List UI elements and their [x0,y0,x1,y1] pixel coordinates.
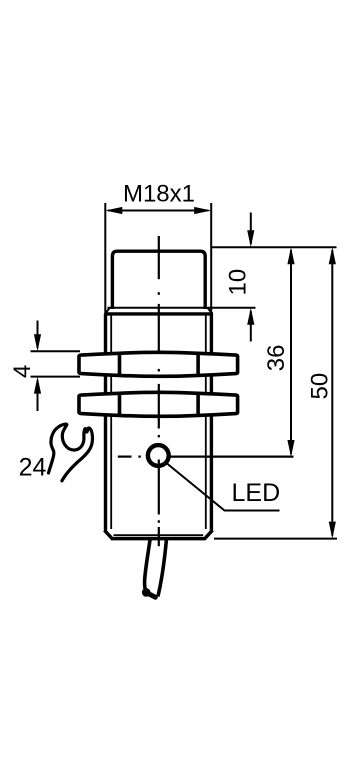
cable end cap [142,588,151,597]
body bottom edge [111,537,206,540]
4-dim lower extension line [31,376,81,378]
extension line left [104,203,106,313]
4-dim lower arrow [37,380,39,411]
svg-text:24: 24 [19,454,47,482]
LED centerline dot [138,456,140,458]
50-dim bottom extension line [214,538,337,540]
svg-text:10: 10 [225,269,252,296]
thread start step [104,312,213,315]
svg-text:4: 4 [9,365,36,378]
svg-text:36: 36 [263,344,290,371]
barrel right outer edge [210,314,213,531]
thread root line right [205,315,207,529]
head bottom line / 10-dim lower extension [108,307,256,309]
wrench icon [49,424,93,481]
cable left outline [145,540,150,591]
body bottom chamfer left [104,530,112,539]
body bottom inner line [114,534,204,536]
top extension line (face) [211,246,336,248]
barrel left outer edge [104,314,107,531]
hex nut 2 [79,392,238,416]
4-dim upper extension line [31,350,81,352]
LED indicator circle [148,445,169,466]
extension line right [210,203,212,313]
cable right outline [158,540,167,597]
4-dim upper arrow [37,321,39,349]
LED extension line to 36-dim [171,456,294,458]
sensor head [112,251,205,309]
svg-text:M18x1: M18x1 [123,181,195,208]
hex nut 1 [79,352,238,376]
thread root line left [110,315,112,529]
10-dim upper arrow [250,213,252,245]
dim line M18x1 [108,210,209,212]
body bottom chamfer right [205,530,213,539]
36-dim line [290,250,292,454]
10-dim lower arrow [250,311,252,342]
50-dim line [331,250,333,536]
svg-text:50: 50 [307,373,334,400]
leader line LED [167,464,280,511]
vertical centerline [158,236,160,546]
svg-text:LED: LED [232,479,281,507]
LED centerline dash left [118,456,132,458]
